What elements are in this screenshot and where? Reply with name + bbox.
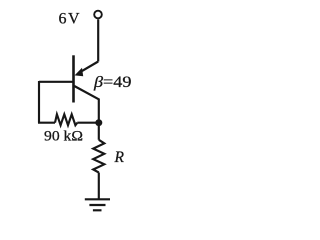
svg-text:V: V [68,11,80,28]
wire resistor R to ground [98,173,100,200]
wire bottom left to resistor [38,122,55,124]
transistor Q1 emitter lead [79,62,99,74]
ground [85,198,110,200]
transistor Q1 base bar [72,55,75,102]
junction node [95,119,102,126]
svg-text:R: R [114,149,125,166]
svg-text:6: 6 [59,11,67,28]
transistor Q1 collector lead [74,86,99,99]
wire from terminal to emitter [97,19,99,61]
wire collector down [98,99,100,140]
resistor 90k zigzag [55,114,77,125]
resistor R zigzag [93,140,104,173]
transistor Q1 emitter arrow (PNP) [75,68,84,76]
wire base to left [39,81,74,83]
wire left vertical [38,81,40,123]
svg-text:90 kΩ: 90 kΩ [44,129,83,145]
terminal (6 V supply node) [94,11,102,19]
wire resistor to junction [77,122,99,124]
svg-text:β=49: β=49 [93,74,132,91]
